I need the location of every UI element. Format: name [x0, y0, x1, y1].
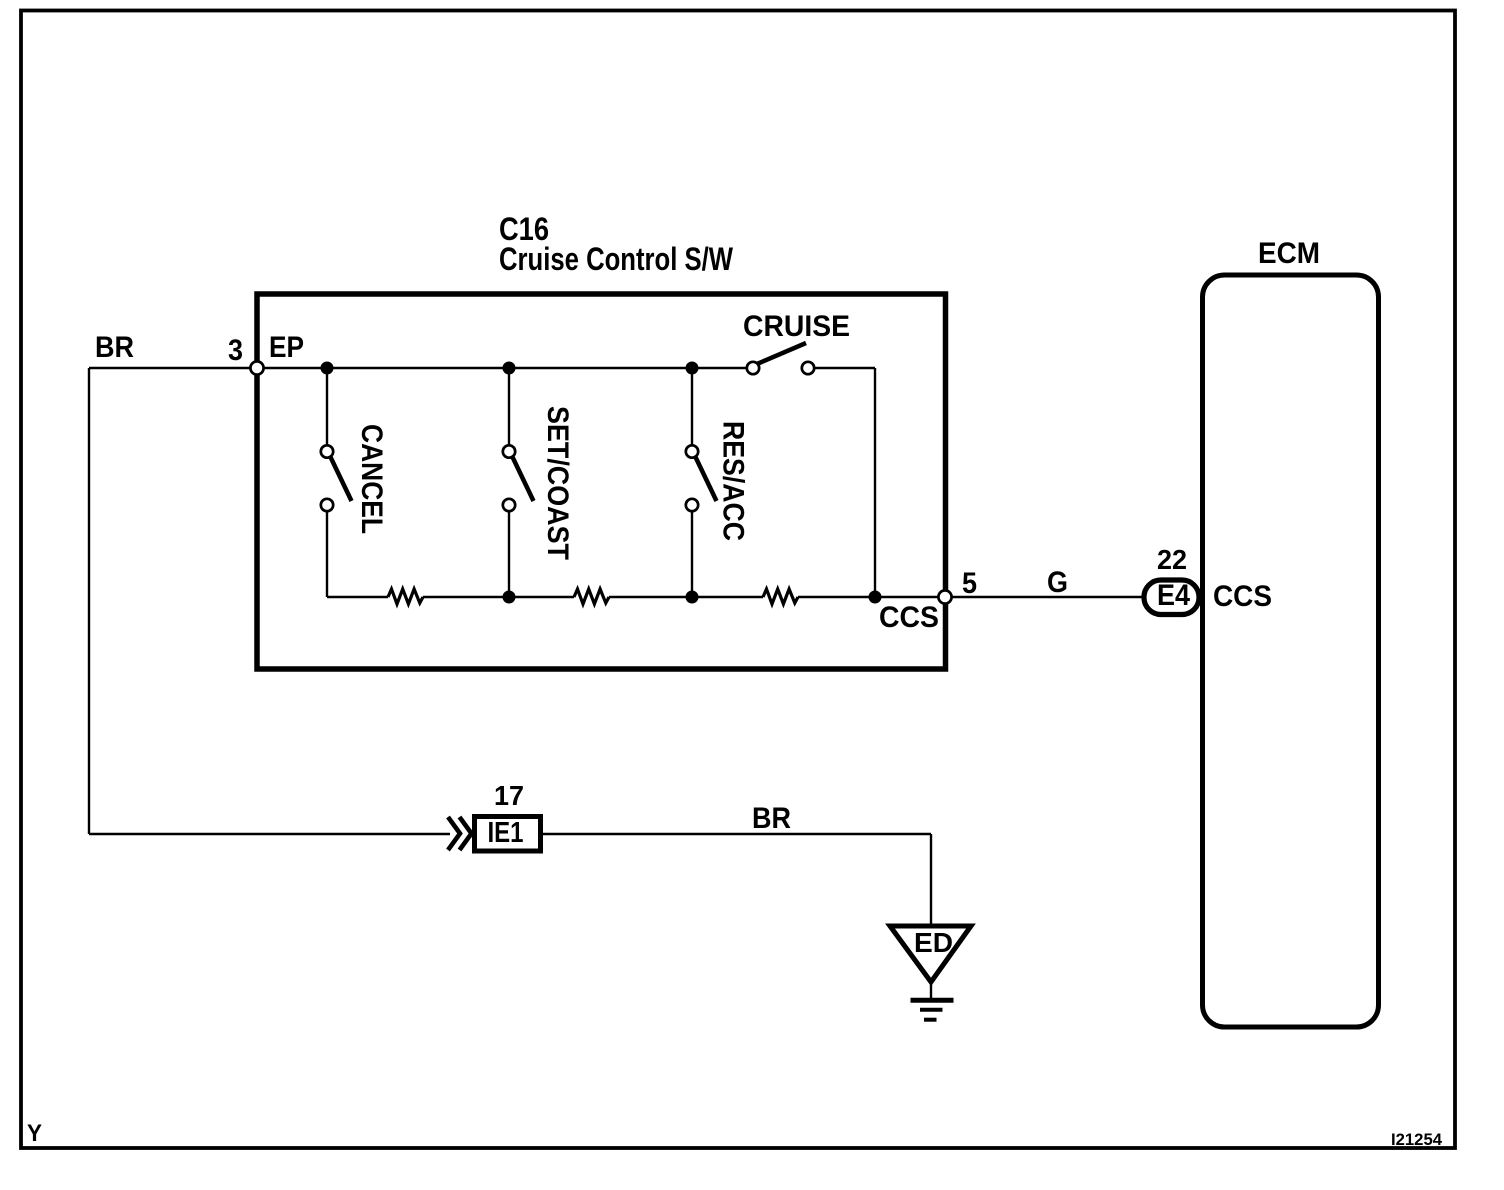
switch SET/COAST blade [512, 456, 534, 501]
svg-text:E4: E4 [1157, 579, 1190, 612]
cruise control switch box C16 [257, 294, 946, 669]
ground triangle ED [890, 926, 971, 982]
switch RES/ACC blade [695, 456, 717, 501]
switch SET/COAST contact circles [503, 445, 515, 457]
svg-text:ECM: ECM [1258, 237, 1320, 270]
switch CANCEL contact circles [321, 445, 333, 457]
junction dot CRUISE bottom [869, 591, 882, 604]
svg-text:3: 3 [228, 334, 243, 367]
ground bar 1 [911, 998, 954, 1003]
svg-text:G: G [1047, 566, 1068, 599]
svg-text:IE1: IE1 [488, 817, 524, 849]
connector E4 oval [1144, 580, 1199, 615]
wire drop to ED ground [930, 834, 932, 926]
svg-text:BR: BR [752, 802, 791, 835]
switch RES/ACC vertical bottom [691, 508, 693, 597]
wire to CCS pin [798, 596, 945, 598]
svg-text:Y: Y [27, 1120, 42, 1147]
switch SET/COAST vertical bottom [508, 508, 510, 597]
resistor R2 [574, 589, 609, 604]
switch RES/ACC contact circles [686, 445, 698, 457]
junction dot RES top [686, 362, 699, 375]
svg-text:CRUISE: CRUISE [743, 310, 850, 343]
pin 3 EP terminal circle [250, 361, 263, 374]
connector chevrons to IE1 [448, 817, 460, 850]
wire left vertical drop [88, 368, 90, 834]
wire [423, 596, 574, 598]
wire BR horizontal to EP pin [89, 367, 749, 369]
ECM box [1203, 275, 1379, 1027]
resistor R1 [388, 589, 423, 604]
switch RES/ACC vertical top [691, 368, 693, 448]
junction dot RES bottom [686, 591, 699, 604]
svg-text:SET/COAST: SET/COAST [541, 406, 574, 560]
svg-text:22: 22 [1157, 544, 1187, 575]
resistor R3 [763, 589, 798, 604]
svg-text:RES/ACC: RES/ACC [717, 421, 750, 541]
wire [609, 596, 763, 598]
svg-text:Cruise Control S/W: Cruise Control S/W [499, 241, 734, 277]
wire IE1 to ground drop [543, 833, 931, 835]
svg-text:CANCEL: CANCEL [355, 424, 388, 534]
ground bar 3 [924, 1018, 937, 1022]
switch CANCEL vertical bottom [326, 508, 328, 597]
switch CANCEL vertical top [326, 368, 328, 448]
svg-text:I21254: I21254 [1391, 1130, 1443, 1149]
junction dot SET top [503, 362, 516, 375]
svg-text:CCS: CCS [1213, 580, 1272, 613]
wire cruise switch to right drop [812, 367, 875, 369]
svg-text:BR: BR [95, 331, 134, 364]
wire G from pin 5 to E4 [951, 596, 1144, 598]
svg-text:ED: ED [914, 927, 953, 958]
switch CANCEL blade [330, 456, 352, 501]
wire bottom horizontal to IE1 [89, 833, 450, 835]
ground stub [930, 982, 932, 998]
junction dot EP-CANCEL [321, 362, 334, 375]
svg-text:5: 5 [962, 567, 977, 600]
switch CRUISE contact circles [747, 362, 759, 374]
svg-text:EP: EP [269, 331, 304, 364]
svg-text:17: 17 [494, 780, 524, 811]
pin 5 CCS terminal circle [938, 590, 951, 603]
svg-text:CCS: CCS [879, 601, 939, 634]
wire right vertical drop to CCS node [874, 368, 876, 597]
ground bar 2 [920, 1008, 943, 1012]
switch CRUISE blade [757, 343, 806, 364]
junction block IE1 [475, 817, 541, 852]
resistor wire (bottom row) [327, 596, 388, 598]
junction dot SET bottom [503, 591, 516, 604]
switch SET/COAST vertical top [508, 368, 510, 448]
